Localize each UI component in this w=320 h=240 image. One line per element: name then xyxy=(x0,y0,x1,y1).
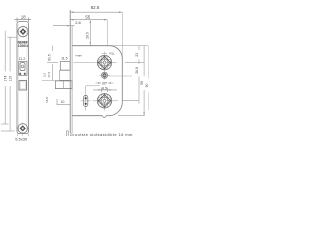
deadbolt side view xyxy=(55,81,72,89)
svg-text:10: 10 xyxy=(61,100,65,104)
extension line for 82.8 right xyxy=(121,12,123,58)
cylinder follower hub xyxy=(97,94,111,108)
bottom screw hole xyxy=(17,123,29,135)
svg-text:22: 22 xyxy=(135,53,139,57)
svg-text:59: 59 xyxy=(140,81,144,85)
latch opening in faceplate xyxy=(19,61,27,75)
left dimension line B (inner) xyxy=(1,37,17,131)
leader arrow at case top left xyxy=(75,55,82,57)
latch guide step xyxy=(60,70,71,80)
middle dimension line 60.5 xyxy=(47,46,58,81)
svg-text:115: 115 xyxy=(8,76,12,82)
svg-text:60.5: 60.5 xyxy=(47,54,51,61)
right dimension line 59 xyxy=(118,46,145,116)
svg-text:26.8: 26.8 xyxy=(135,67,139,74)
svg-text:26.5: 26.5 xyxy=(85,32,89,39)
extension line deadbolt top xyxy=(42,80,72,82)
case right edge xyxy=(121,59,123,103)
small hole below follower xyxy=(101,72,107,78)
deadbolt throw line xyxy=(62,81,64,89)
cylinder follower horizontal centerline xyxy=(93,100,119,102)
svg-text:30*: 30* xyxy=(102,82,108,86)
right dimension line 22 / 26.8 xyxy=(122,46,144,104)
dimension 55 xyxy=(70,19,107,21)
small dimension 10 (near cylinder height) xyxy=(57,99,70,105)
plate bottom tick marks xyxy=(17,134,28,136)
extension line for 55 xyxy=(106,20,108,46)
cylinder follower vertical centerline xyxy=(104,93,106,111)
fixing lug bump on bottom edge xyxy=(103,116,106,118)
dimension 26.5 (vertical, case top offset) xyxy=(89,20,91,46)
svg-text:17.6: 17.6 xyxy=(47,72,51,78)
svg-text:174: 174 xyxy=(4,76,8,82)
lock case top edge xyxy=(72,45,109,47)
leader from small hole to right xyxy=(109,75,133,77)
latch bolt face xyxy=(20,63,25,71)
svg-text:11.2: 11.2 xyxy=(19,57,26,61)
svg-text:15.8: 15.8 xyxy=(45,97,49,103)
case top right corner arc xyxy=(110,46,123,59)
case bottom right corner arc xyxy=(109,102,123,116)
svg-text:90: 90 xyxy=(145,84,149,88)
left dimension line A (outer) xyxy=(1,31,9,124)
case bottom edge xyxy=(72,115,102,117)
right dimension line 90 (faint outer) xyxy=(147,46,149,110)
svg-text:R11: R11 xyxy=(110,52,115,56)
faceplate front view outline xyxy=(17,22,29,134)
side view faceplate front edge xyxy=(69,10,71,133)
svg-text:11.5: 11.5 xyxy=(61,57,67,61)
top extension line to right dims xyxy=(110,45,149,47)
follower horizontal centerline xyxy=(74,62,117,64)
svg-text:1266/4: 1266/4 xyxy=(18,44,29,48)
svg-text:55: 55 xyxy=(85,14,90,19)
svg-text:5.5x30: 5.5x30 xyxy=(15,137,28,142)
auxiliary slot feature left of cylinder xyxy=(85,86,87,111)
logo text block (brand marking on plate) xyxy=(18,41,29,49)
dimension 18 (faceplate width, top left) xyxy=(15,18,32,23)
svg-text:18: 18 xyxy=(21,14,26,19)
side view faceplate back edge xyxy=(71,26,73,134)
extension line deadbolt bottom xyxy=(55,88,72,90)
svg-text:82.8: 82.8 xyxy=(91,5,100,10)
faceplate inner border lines xyxy=(19,24,27,132)
follower (square spindle hub) xyxy=(97,55,111,69)
svg-text:2.8: 2.8 xyxy=(75,20,81,25)
dimension 82.8 (top, overall depth) xyxy=(70,11,122,13)
deadbolt opening in faceplate xyxy=(19,81,27,90)
top screw hole xyxy=(17,26,29,38)
caption bracket icon xyxy=(67,131,69,136)
latch spring corners xyxy=(19,73,21,75)
latch bolt side view xyxy=(60,62,70,71)
follower vertical centerline xyxy=(104,52,106,80)
svg-text:Grootste slotkastdikte 16 mm: Grootste slotkastdikte 16 mm xyxy=(70,132,133,137)
